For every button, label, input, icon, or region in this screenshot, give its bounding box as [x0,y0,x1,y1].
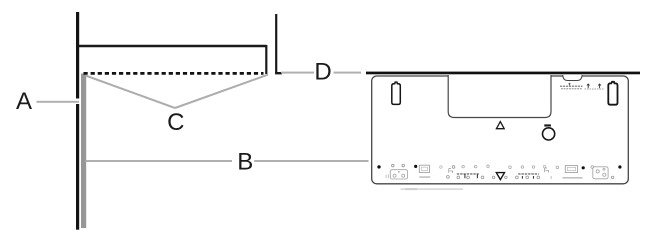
ring [452,166,455,169]
svg-text:C: C [167,109,184,136]
leader line D right [334,72,362,74]
leader line A [37,101,80,103]
countertop right edge drop [265,45,267,74]
gray V line (left leg) [86,76,176,109]
port underline right [563,177,583,178]
ring [392,164,395,167]
tall thin vertical line at right of counter [275,14,277,73]
gray V line (right leg) [175,75,268,108]
leader line B right [254,160,368,162]
knob circle [543,128,555,140]
rings [526,176,529,179]
faint caption under panel [401,188,464,190]
rings [509,166,512,169]
tick-dot mark [476,174,478,178]
leader line D left [281,72,314,74]
faint ticks 2 [551,176,552,179]
right keyhole slot [608,82,617,105]
clip icon 2 [545,168,549,173]
group inner circle [596,170,599,173]
svg-text:B: B [237,149,253,176]
micro text block top-right line1 [560,85,583,87]
svg-text:D: D [314,59,331,86]
ring [591,166,594,169]
wall top line above panel [366,72,640,75]
tiny text under arrows [585,88,605,90]
group inner circle [402,174,405,177]
big down triangle [496,173,504,180]
left icon group plate [390,170,407,179]
foot of tall line [275,72,282,74]
gray panel edge bar beside wall [81,74,86,229]
tick-dot mark [533,176,535,179]
group inner circle [393,174,396,177]
tiny arrow mark 2 [598,84,601,88]
upper rings row [462,165,465,168]
tick-dot mark [464,174,466,178]
top notch cutout [563,74,583,76]
micro text center-left [457,173,479,175]
center recess cutout [448,75,551,118]
black dot 2 [414,165,417,168]
tick-dot mark [521,176,523,179]
ring right of nabla [505,176,508,179]
small triangle marker (up) [496,122,504,129]
dashed line (mounting template) [84,72,264,75]
micro text block top-right line2 [561,88,582,90]
knob tab [544,124,551,126]
group inner tick [398,171,399,172]
wall (vertical black line, upper segment) [76,12,79,99]
bottom strip: left black dot [377,165,380,168]
ring [402,164,405,167]
left keyhole slot [392,82,401,104]
group inner tick [603,168,605,170]
micro text center-right [518,173,539,175]
right icon group plate [593,167,608,179]
lower rings row [447,176,450,179]
port icon right [565,166,577,173]
ring [611,176,614,179]
ring [556,166,559,169]
leader line B left [86,160,233,162]
port icon left [419,165,429,172]
panel outline (device back) [372,76,629,184]
tiny mark above text block [569,83,571,86]
black dot 4 [618,165,621,168]
tiny arrow mark 1 [587,84,590,88]
faint ring [440,166,443,169]
black dot 3 [582,166,585,169]
countertop top line [79,45,266,47]
port underline left [419,176,430,177]
group inner circle [603,173,606,176]
svg-text:A: A [16,88,32,115]
wall (vertical black line, lower segment) [76,104,79,230]
ring left of nabla [492,176,495,179]
faint ticks [386,175,387,179]
clip icon [449,168,453,173]
